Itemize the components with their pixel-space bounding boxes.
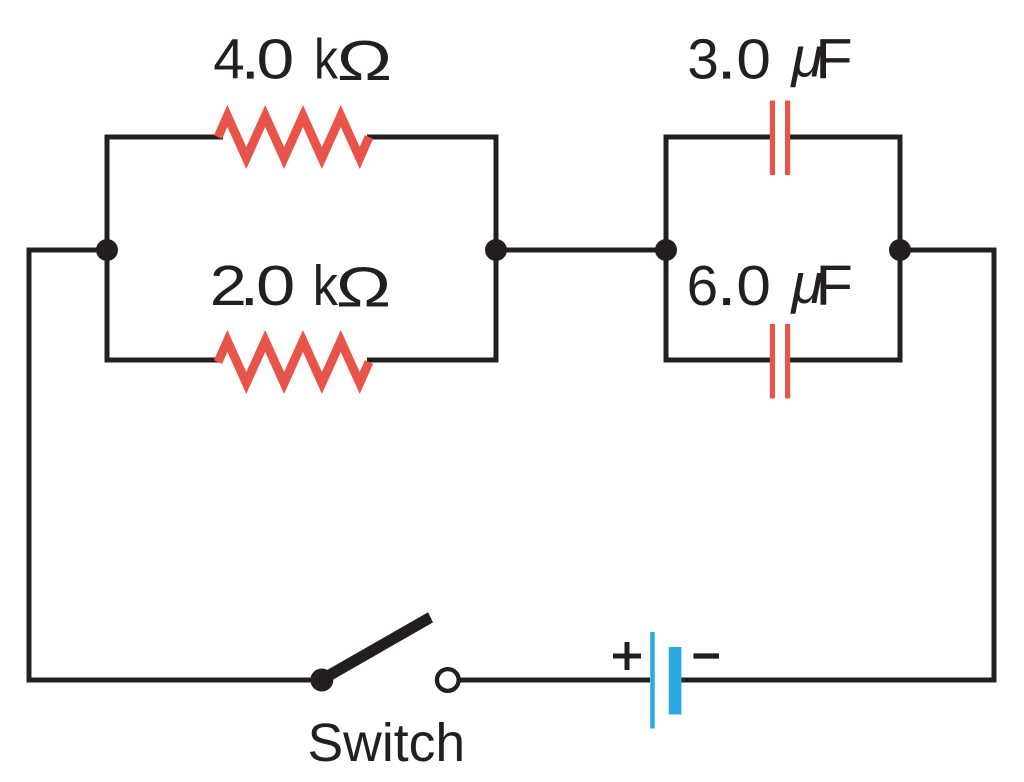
node A (left junction dot)	[96, 239, 118, 261]
svg-text:4: 4	[213, 28, 244, 91]
battery B1 positive plate (long thin blue)	[650, 632, 655, 729]
svg-text:0: 0	[736, 27, 771, 91]
wire bottom run from left corner to switch pivot	[29, 678, 321, 683]
battery B1 negative plate (short thick blue)	[669, 647, 682, 715]
svg-text:Ω: Ω	[337, 29, 392, 92]
battery polarity + sign	[613, 642, 641, 670]
svg-text:0: 0	[736, 254, 771, 318]
wire capacitor-box left vertical	[664, 135, 669, 363]
switch S1 open contact circle	[437, 669, 459, 691]
wire right outer vertical	[992, 250, 997, 680]
svg-text:k: k	[313, 255, 338, 317]
svg-text:Ω: Ω	[336, 255, 391, 318]
wire from node A left to outer loop	[29, 248, 107, 253]
svg-text:F: F	[816, 255, 853, 317]
capacitor C2 6.0 uF right plate	[785, 324, 790, 399]
svg-text:0: 0	[256, 254, 295, 318]
wire left outer vertical	[27, 248, 32, 683]
battery polarity - sign	[694, 653, 720, 658]
label C2 decimal point	[723, 298, 730, 305]
node C (junction dot left of capacitor pair)	[655, 239, 677, 261]
wire from node D to outer right vertical	[900, 248, 997, 253]
label R1 decimal point	[247, 72, 254, 79]
switch S1 pivot dot	[310, 669, 333, 692]
wire resistor-box right vertical	[494, 135, 499, 363]
wire top lead right of capacitor C1	[790, 135, 903, 140]
label R2 decimal point	[246, 298, 253, 305]
svg-text:0: 0	[257, 29, 295, 91]
capacitor C1 3.0 uF left plate	[770, 101, 775, 176]
node D (right junction dot)	[889, 239, 911, 261]
capacitor C1 3.0 uF right plate	[785, 101, 790, 176]
wire middle run from node B to node C	[496, 248, 666, 253]
wire from battery negative plate to right corner	[682, 678, 997, 683]
switch S1 lever arm	[319, 612, 433, 685]
svg-text:3: 3	[687, 28, 718, 91]
svg-text:2: 2	[210, 255, 247, 318]
node B (junction dot right of resistor pair)	[485, 239, 507, 261]
capacitor C2 6.0 uF left plate	[770, 324, 775, 399]
wire top lead right of resistor R1	[367, 135, 499, 140]
wire from switch open contact to battery positive plate	[460, 678, 651, 683]
svg-text:k: k	[314, 29, 339, 92]
wire capacitor-box right vertical	[898, 135, 903, 363]
resistor R1 4.0 kOhm zigzag	[218, 116, 369, 158]
wire bottom lead left of resistor R2	[105, 358, 224, 363]
resistor R2 2.0 kOhm zigzag	[218, 341, 369, 383]
wire bottom lead right of resistor R2	[367, 358, 499, 363]
wire top lead left of capacitor C1	[664, 135, 771, 140]
wire top lead left of resistor R1	[105, 135, 224, 140]
wire bottom lead right of capacitor C2	[790, 358, 903, 363]
svg-text:F: F	[815, 29, 852, 91]
label C1 decimal point	[723, 72, 730, 79]
wire resistor-box left vertical	[105, 135, 110, 363]
svg-text:Switch: Switch	[308, 714, 466, 773]
svg-text:6: 6	[687, 254, 718, 317]
wire bottom lead left of capacitor C2	[664, 358, 771, 363]
